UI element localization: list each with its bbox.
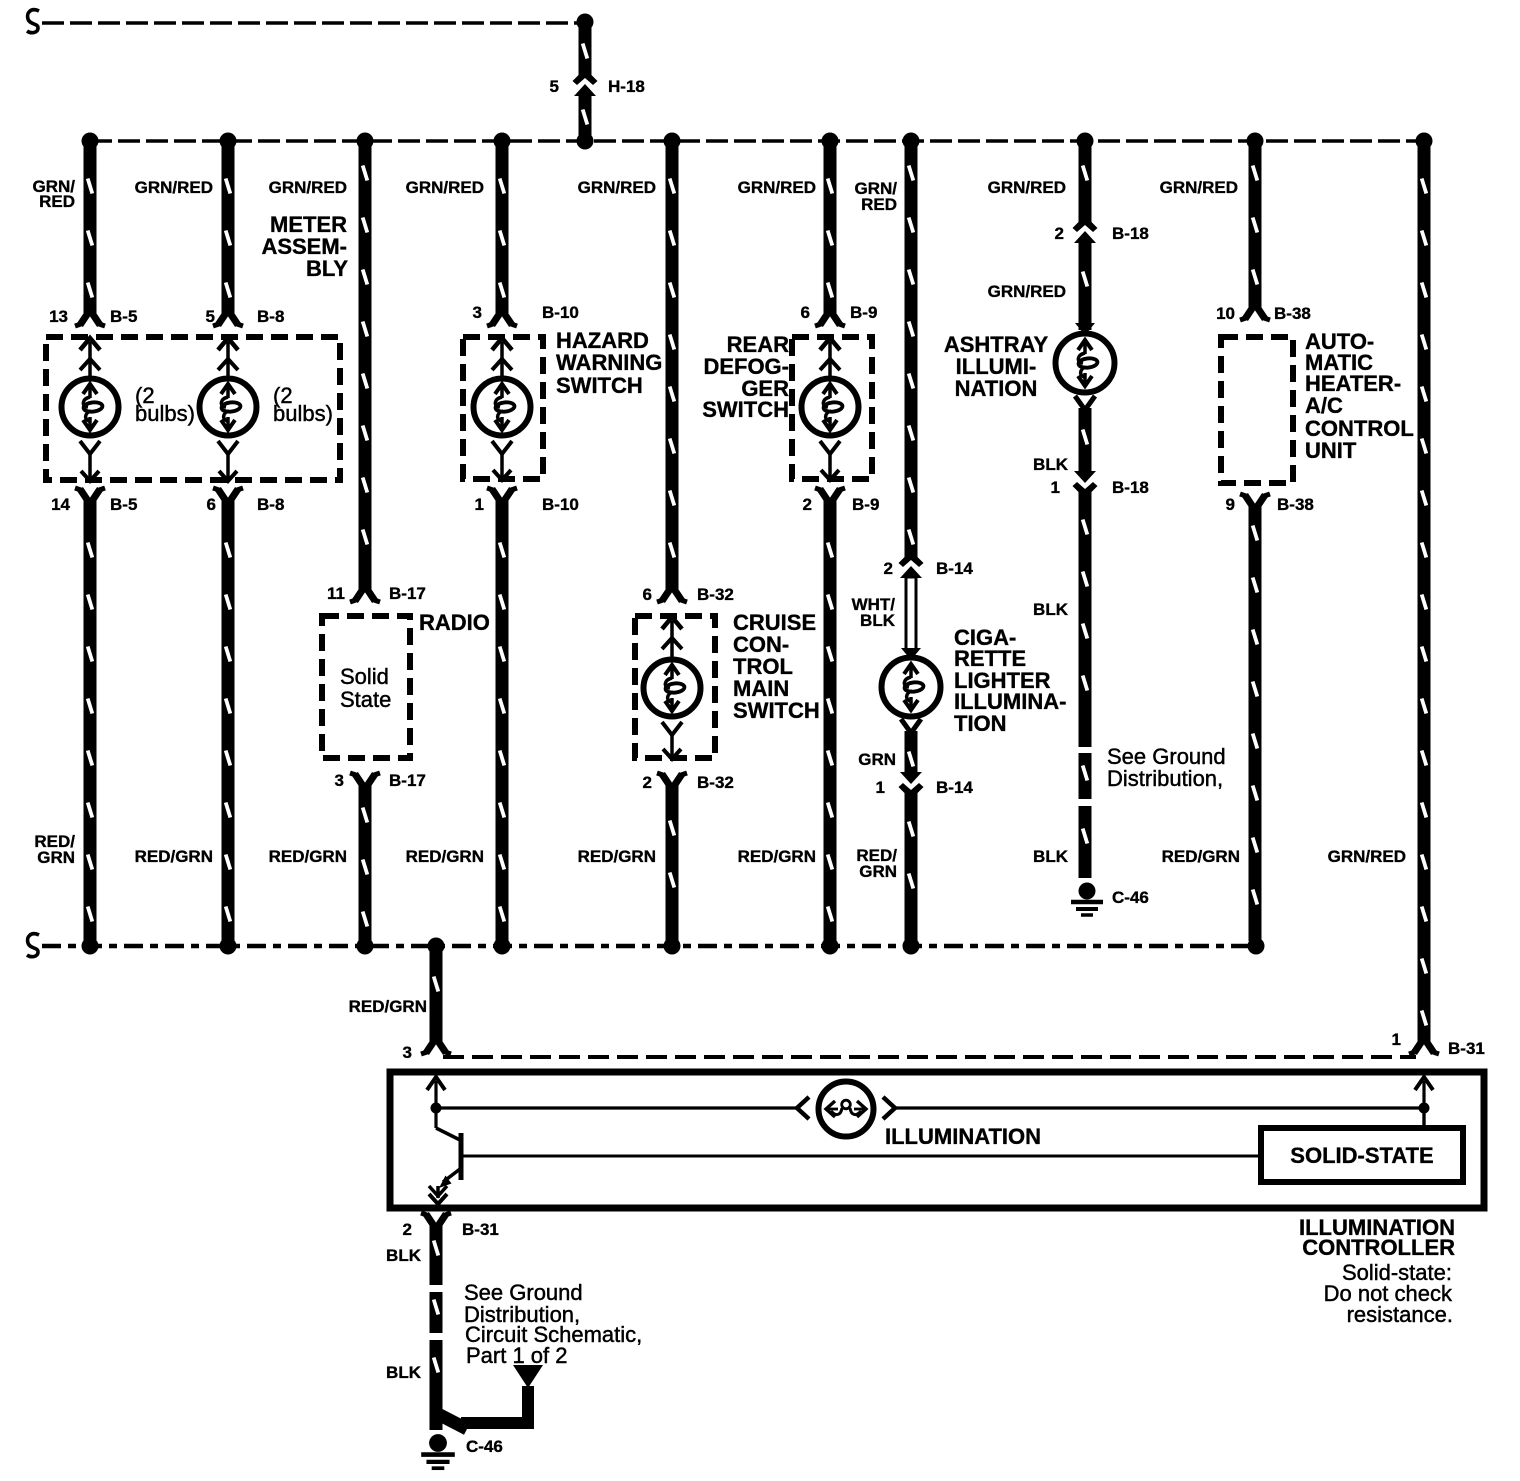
svg-text:NATION: NATION	[955, 376, 1038, 401]
svg-text:RED/GRN: RED/GRN	[1162, 847, 1240, 866]
svg-text:11: 11	[327, 584, 345, 603]
svg-text:2: 2	[643, 773, 652, 792]
svg-text:GRN: GRN	[37, 848, 75, 867]
svg-text:B-18: B-18	[1112, 478, 1149, 497]
svg-text:B-32: B-32	[697, 585, 734, 604]
svg-text:RED/GRN: RED/GRN	[349, 997, 427, 1016]
svg-text:BLK: BLK	[860, 611, 896, 630]
svg-text:2: 2	[884, 559, 893, 578]
svg-text:RED: RED	[39, 192, 75, 211]
svg-text:CONTROLLER: CONTROLLER	[1302, 1235, 1455, 1260]
svg-text:Part 1 of 2: Part 1 of 2	[466, 1343, 568, 1368]
svg-text:GRN: GRN	[859, 862, 897, 881]
svg-text:3: 3	[335, 771, 344, 790]
svg-text:B-32: B-32	[697, 773, 734, 792]
svg-text:6: 6	[643, 585, 652, 604]
svg-text:5: 5	[206, 307, 215, 326]
svg-text:RED/GRN: RED/GRN	[135, 847, 213, 866]
svg-text:B-31: B-31	[462, 1220, 499, 1239]
svg-text:BLK: BLK	[1033, 600, 1069, 619]
svg-text:B-17: B-17	[389, 584, 426, 603]
svg-text:State: State	[340, 687, 391, 712]
svg-text:ILLUMINATION: ILLUMINATION	[885, 1124, 1041, 1149]
svg-text:RED: RED	[861, 195, 897, 214]
svg-text:Distribution,: Distribution,	[1107, 766, 1223, 791]
svg-text:2: 2	[403, 1220, 412, 1239]
svg-text:GRN/RED: GRN/RED	[738, 178, 816, 197]
svg-text:B-9: B-9	[850, 303, 877, 322]
svg-text:BLK: BLK	[386, 1246, 422, 1265]
svg-text:1: 1	[1392, 1030, 1401, 1049]
svg-text:B-5: B-5	[110, 307, 137, 326]
svg-text:C-46: C-46	[466, 1437, 503, 1456]
svg-text:1: 1	[876, 778, 885, 797]
svg-text:2: 2	[803, 495, 812, 514]
svg-text:B-14: B-14	[936, 559, 973, 578]
svg-text:RED/GRN: RED/GRN	[578, 847, 656, 866]
svg-text:9: 9	[1226, 495, 1235, 514]
svg-text:SWITCH: SWITCH	[556, 373, 643, 398]
svg-text:GRN/RED: GRN/RED	[988, 178, 1066, 197]
svg-text:GRN/RED: GRN/RED	[988, 282, 1066, 301]
svg-text:H-18: H-18	[608, 77, 645, 96]
svg-text:GRN: GRN	[858, 750, 896, 769]
svg-text:B-31: B-31	[1448, 1039, 1485, 1058]
svg-text:resistance.: resistance.	[1347, 1302, 1453, 1327]
svg-text:UNIT: UNIT	[1305, 438, 1357, 463]
svg-text:BLK: BLK	[1033, 847, 1069, 866]
svg-text:3: 3	[403, 1043, 412, 1062]
svg-text:B-18: B-18	[1112, 224, 1149, 243]
svg-text:RADIO: RADIO	[419, 610, 490, 635]
svg-text:B-17: B-17	[389, 771, 426, 790]
svg-text:SOLID-STATE: SOLID-STATE	[1290, 1143, 1433, 1168]
svg-text:2: 2	[1055, 224, 1064, 243]
svg-text:1: 1	[1051, 478, 1060, 497]
svg-text:5: 5	[550, 77, 559, 96]
svg-text:B-38: B-38	[1274, 304, 1311, 323]
svg-text:B-10: B-10	[542, 303, 579, 322]
svg-text:B-5: B-5	[110, 495, 137, 514]
svg-text:GRN/RED: GRN/RED	[1328, 847, 1406, 866]
svg-text:B-14: B-14	[936, 778, 973, 797]
svg-text:B-8: B-8	[257, 495, 284, 514]
svg-text:A/C: A/C	[1305, 393, 1343, 418]
svg-text:6: 6	[207, 495, 216, 514]
svg-text:10: 10	[1216, 304, 1235, 323]
svg-text:GRN/RED: GRN/RED	[578, 178, 656, 197]
svg-text:Solid: Solid	[340, 664, 389, 689]
svg-text:bulbs): bulbs)	[273, 401, 333, 426]
svg-text:RED/GRN: RED/GRN	[406, 847, 484, 866]
svg-text:B-10: B-10	[542, 495, 579, 514]
svg-text:GRN/RED: GRN/RED	[1160, 178, 1238, 197]
svg-text:GRN/RED: GRN/RED	[406, 178, 484, 197]
svg-text:3: 3	[473, 303, 482, 322]
svg-text:RED/GRN: RED/GRN	[269, 847, 347, 866]
svg-text:B-38: B-38	[1277, 495, 1314, 514]
svg-text:bulbs): bulbs)	[135, 401, 195, 426]
svg-text:6: 6	[801, 303, 810, 322]
svg-text:BLK: BLK	[386, 1363, 422, 1382]
svg-text:SWITCH: SWITCH	[733, 698, 820, 723]
svg-text:GRN/RED: GRN/RED	[269, 178, 347, 197]
svg-text:13: 13	[49, 307, 68, 326]
svg-text:TION: TION	[954, 711, 1007, 736]
svg-text:BLK: BLK	[1033, 455, 1069, 474]
svg-text:B-9: B-9	[852, 495, 879, 514]
svg-text:14: 14	[51, 495, 70, 514]
svg-text:BLY: BLY	[306, 256, 348, 281]
svg-text:GRN/RED: GRN/RED	[135, 178, 213, 197]
svg-text:1: 1	[475, 495, 484, 514]
svg-text:C-46: C-46	[1112, 888, 1149, 907]
svg-text:B-8: B-8	[257, 307, 284, 326]
svg-text:WARNING: WARNING	[556, 350, 662, 375]
svg-text:SWITCH: SWITCH	[702, 397, 789, 422]
svg-text:RED/GRN: RED/GRN	[738, 847, 816, 866]
